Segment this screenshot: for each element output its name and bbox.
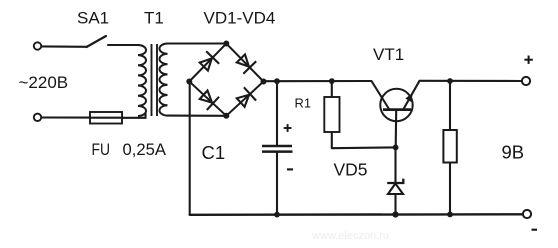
wire secondary top to bridge — [168, 42, 227, 44]
wire — [122, 113, 146, 118]
svg-text:T1: T1 — [144, 9, 164, 28]
output terminal + — [522, 77, 530, 85]
junction dot bottom AC node — [223, 113, 229, 119]
junction dot C1 bottom — [274, 212, 280, 218]
diode VD2 (top-right) — [237, 54, 256, 73]
switch SA1 blade — [87, 36, 107, 47]
load resistor — [443, 81, 456, 214]
input terminal L1 (top) — [34, 42, 41, 49]
VT1 emitter arrow — [405, 93, 412, 102]
output terminal - — [523, 210, 531, 218]
wire — [42, 45, 87, 47]
capacitor C1 — [262, 81, 293, 215]
junction dot C1 top — [274, 78, 280, 84]
diode VD1 (left-top) — [200, 51, 219, 70]
wire emitter to output — [420, 80, 522, 82]
zener diode VD5 — [387, 147, 403, 214]
junction dot - node — [186, 79, 192, 85]
transistor VT1 — [372, 81, 420, 148]
svg-text:VT1: VT1 — [373, 45, 404, 64]
fuse FU — [90, 112, 122, 124]
bridge diamond wires — [189, 44, 263, 116]
wire — [42, 116, 90, 118]
output minus sign — [532, 229, 538, 231]
svg-text:R1: R1 — [295, 96, 312, 111]
C1 minus sign — [287, 168, 293, 170]
resistor R1 — [324, 81, 339, 148]
wire bottom rail — [190, 213, 523, 216]
C1 plus sign — [284, 124, 292, 132]
wire top rail bridge to collector — [264, 80, 372, 82]
junction dot R1 top — [329, 78, 335, 84]
svg-text:www.eleczon.ru: www.eleczon.ru — [311, 230, 389, 242]
output plus sign — [524, 56, 532, 64]
diode VD4 (bottom-right) — [237, 87, 256, 107]
transformer T1 secondary winding — [159, 44, 167, 116]
svg-text:~220В: ~220В — [19, 73, 69, 92]
junction dot VD5 bottom — [392, 211, 398, 217]
junction dot load bottom — [447, 212, 453, 218]
svg-text:VD5: VD5 — [334, 160, 368, 180]
wire — [108, 44, 138, 46]
wire R1 to base node — [332, 146, 396, 149]
wire secondary bottom to bridge — [168, 115, 227, 117]
svg-text:9В: 9В — [502, 142, 525, 163]
input terminal L2 (bottom) — [34, 114, 41, 121]
transformer T1 primary winding — [138, 45, 146, 116]
svg-text:0,25A: 0,25A — [123, 140, 167, 159]
svg-text:FU: FU — [92, 140, 111, 159]
junction dot + node — [261, 79, 267, 85]
transformer T1 core — [152, 44, 158, 116]
diode VD3 (left-bottom) — [200, 91, 219, 111]
svg-text:SA1: SA1 — [77, 9, 109, 28]
junction dot load top — [447, 78, 453, 84]
junction dot base node — [393, 145, 399, 151]
junction dot top AC node — [223, 41, 229, 47]
svg-text:C1: C1 — [202, 142, 226, 163]
svg-text:VD1-VD4: VD1-VD4 — [204, 9, 276, 28]
wire minus vertical — [189, 82, 191, 215]
